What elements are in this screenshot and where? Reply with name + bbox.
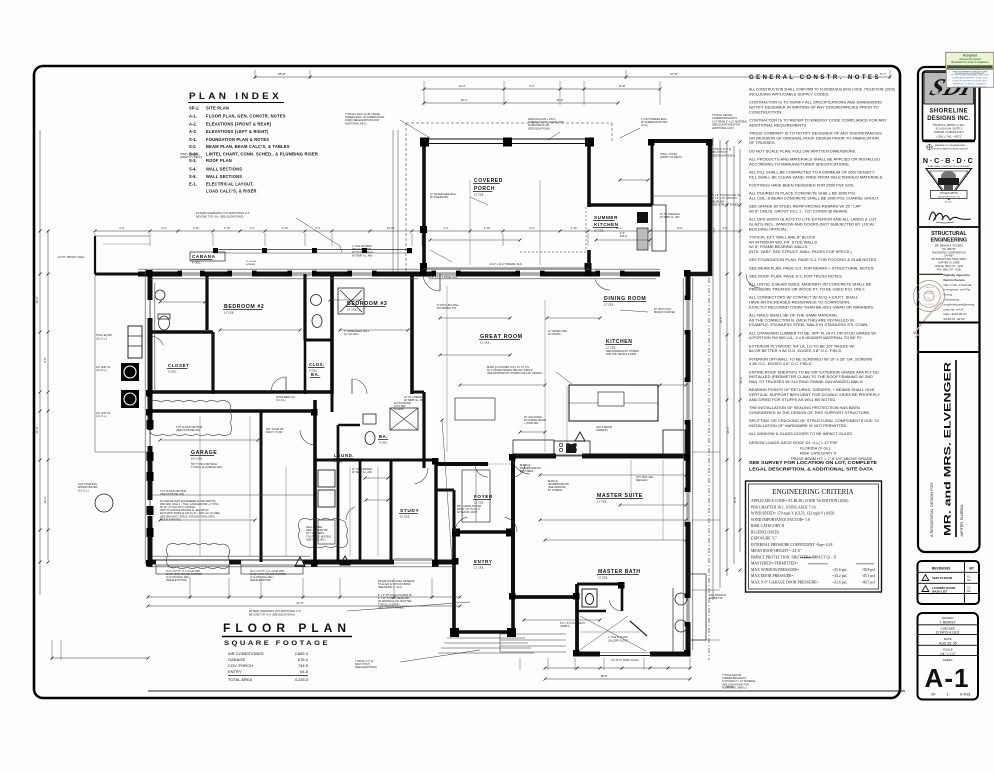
principal signature bbox=[929, 212, 971, 220]
hall wall east bbox=[422, 392, 425, 468]
revision row 2 bbox=[922, 586, 929, 592]
master bath toilet bbox=[582, 589, 597, 607]
svg-text:(SEE ELEVATIONS): (SEE ELEVATIONS) bbox=[166, 579, 187, 582]
pool bath door swing bbox=[150, 336, 163, 345]
svg-text:(SEE ELEVATIONS): (SEE ELEVATIONS) bbox=[250, 579, 271, 582]
svg-text:AND DRIED FOR STUFFS AS WILL B: AND DRIED FOR STUFFS AS WILL BE NOTED. bbox=[749, 397, 836, 402]
svg-text:WALL SECTIONS: WALL SECTIONS bbox=[206, 166, 242, 171]
svg-text:BEYOND TYP. O.H. (SEE ELEVATIO: BEYOND TYP. O.H. (SEE ELEVATIONS) bbox=[249, 613, 295, 616]
svg-text:4 W/ O.C. EDGES 4 8" O.C. FIEL: 4 W/ O.C. EDGES 4 8" O.C. FIELD bbox=[749, 361, 812, 366]
svg-text:AUG 25, 05: AUG 25, 05 bbox=[939, 641, 957, 645]
window jamb blocks east wall bbox=[685, 296, 690, 301]
svg-text:GREAT ROOM: GREAT ROOM bbox=[480, 334, 523, 340]
svg-text:10' CEIL.: 10' CEIL. bbox=[347, 307, 358, 311]
right vertical dimension lines bbox=[712, 137, 714, 600]
kitchen - master suite wall bbox=[513, 454, 688, 459]
master bath toilet room walls bbox=[577, 583, 622, 586]
svg-text:OPT. TRAY CEIL.: OPT. TRAY CEIL. bbox=[636, 476, 654, 479]
master bath door swing bbox=[609, 600, 622, 611]
svg-text:(SEE DRAWINGS BY OTHERS FOR CA: (SEE DRAWINGS BY OTHERS FOR CAB. DESIGN) bbox=[487, 372, 542, 375]
entry porch east wall bbox=[511, 532, 515, 634]
svg-text:( 561 ) 741 - 4572: ( 561 ) 741 - 4572 bbox=[936, 135, 961, 139]
project name vertical text bbox=[929, 361, 953, 537]
svg-text:MASTER SUITE: MASTER SUITE bbox=[597, 493, 643, 499]
svg-text:EXPOSURE "C": EXPOSURE "C" bbox=[751, 537, 778, 541]
svg-text:CERTIFICATION No. 753: CERTIFICATION No. 753 bbox=[937, 195, 961, 198]
kitchen island bbox=[569, 385, 658, 421]
svg-text:10'+ CEIL.: 10'+ CEIL. bbox=[191, 456, 203, 460]
svg-text:SHEET: SHEET bbox=[943, 658, 953, 662]
svg-text:10' CEIL.: 10' CEIL. bbox=[400, 514, 411, 518]
laundry east wall bbox=[337, 425, 340, 562]
svg-text:MEAN ROOF HEIGHT = 24'-6": MEAN ROOF HEIGHT = 24'-6" bbox=[751, 549, 802, 553]
svg-text:SUMMER: SUMMER bbox=[594, 215, 618, 220]
summer kitchen fixtures bbox=[637, 212, 648, 223]
revision delta 2 bbox=[340, 556, 350, 565]
svg-text:COVERED: COVERED bbox=[474, 178, 503, 184]
svg-text:N·C·B·D·C: N·C·B·D·C bbox=[923, 156, 975, 165]
ncbdc name plate bbox=[931, 191, 968, 199]
svg-text:4'-10": 4'-10" bbox=[224, 226, 231, 230]
master vanity bbox=[675, 593, 687, 605]
svg-text:ELEVATIONS (FRONT & REAR): ELEVATIONS (FRONT & REAR) bbox=[206, 121, 272, 126]
svg-text:ALL WINDOW & GLASS DOORS TO BE: ALL WINDOW & GLASS DOORS TO BE IMPACT GL… bbox=[749, 431, 853, 436]
svg-text:CONSIDERED IN THE DESIGN OF TH: CONSIDERED IN THE DESIGN OF THIS SUPPORT… bbox=[749, 410, 870, 415]
svg-text:APPLICABLE CODE= FL BLDG CODE: APPLICABLE CODE= FL BLDG CODE 7th EDITIO… bbox=[751, 499, 849, 503]
svg-text:CABANA: CABANA bbox=[192, 254, 216, 259]
svg-text:SP-1.: SP-1. bbox=[189, 106, 199, 111]
engineer circular seal bbox=[914, 281, 945, 312]
svg-text:MAX WINDOW PRESSURE=: MAX WINDOW PRESSURE= bbox=[751, 568, 799, 572]
svg-text:1'-10": 1'-10" bbox=[193, 226, 200, 230]
divider under signature bbox=[918, 226, 980, 228]
laundry door swing bbox=[346, 507, 355, 520]
great room built-in bbox=[455, 398, 495, 420]
svg-text:ELECTRICAL LAYOUT,: ELECTRICAL LAYOUT, bbox=[206, 182, 254, 187]
porch wall mid column blocks bbox=[420, 226, 427, 233]
svg-text:W/ CROWN: W/ CROWN bbox=[548, 334, 561, 336]
dining bay interior lines bbox=[652, 195, 710, 197]
svg-text:VENT PLENUM: VENT PLENUM bbox=[932, 576, 953, 580]
svg-text:14'-2": 14'-2" bbox=[35, 297, 39, 304]
svg-text:96'-8": 96'-8" bbox=[726, 685, 733, 689]
svg-text:INSTALLATION OF HARDWARE IS NO: INSTALLATION OF HARDWARE IS NOT PERMITTE… bbox=[749, 423, 848, 428]
master closet shelves bbox=[462, 470, 490, 522]
svg-text:ATTIC ABV.: ATTIC ABV. bbox=[394, 405, 406, 408]
svg-text:2,882.4: 2,882.4 bbox=[295, 651, 309, 656]
svg-text:SHORELINE: SHORELINE bbox=[929, 109, 968, 115]
svg-text:W/ TEMP. GL. ABV.: W/ TEMP. GL. ABV. bbox=[404, 399, 425, 402]
adda member mark bbox=[926, 144, 933, 150]
svg-text:A.I.B.D.: A.I.B.D. bbox=[945, 201, 953, 204]
window jamb blocks north wall bbox=[178, 271, 183, 276]
svg-text:A RESIDENTIAL DESIGN FOR:: A RESIDENTIAL DESIGN FOR: bbox=[929, 482, 934, 537]
svg-text:A-2.: A-2. bbox=[189, 121, 197, 126]
bed2 south wall bbox=[150, 390, 332, 394]
svg-text:A-3.: A-3. bbox=[189, 129, 197, 134]
pool bath sink bbox=[155, 290, 165, 300]
svg-text:10' CEIL.: 10' CEIL. bbox=[224, 310, 235, 314]
svg-text:Digitally signed by: Digitally signed by bbox=[944, 273, 971, 277]
svg-text:DO NOT REMOVE FROM JOB SITE: DO NOT REMOVE FROM JOB SITE bbox=[953, 86, 987, 88]
entry column left bbox=[450, 628, 459, 637]
privacy wall wing bbox=[95, 273, 150, 276]
flood vent blocks west wall bbox=[147, 420, 154, 429]
svg-text:(2) 7x16 WALL: (2) 7x16 WALL bbox=[344, 333, 360, 336]
svg-text:2'-10": 2'-10" bbox=[282, 226, 289, 230]
svg-text:CLOSET: CLOSET bbox=[168, 363, 189, 368]
revision row 1 bbox=[922, 575, 929, 581]
master door swing bbox=[512, 459, 530, 474]
divider above project box bbox=[918, 351, 980, 353]
svg-text:MASTER BATH: MASTER BATH bbox=[598, 569, 641, 575]
dining bay north wall bbox=[650, 139, 712, 143]
east equipment yard bbox=[705, 574, 707, 640]
svg-text:ALL COL. & BEAM CONCRETE SHALL: ALL COL. & BEAM CONCRETE SHALL BE 3000 P… bbox=[749, 195, 879, 200]
svg-text:A-1: A-1 bbox=[925, 663, 970, 693]
svg-text:GENERAL CONSTR. NOTES: GENERAL CONSTR. NOTES bbox=[749, 74, 881, 81]
svg-text:OF THE PLANS REVIEWED FOR CODE: OF THE PLANS REVIEWED FOR CODE bbox=[951, 74, 989, 77]
svg-text:SEE ROOF PLAN, PAGE S-3, FOR T: SEE ROOF PLAN, PAGE S-3, FOR TRUSS NOTES… bbox=[749, 273, 843, 278]
svg-text:BLEND @: BLEND @ bbox=[520, 465, 531, 467]
svg-text:54'-2": 54'-2" bbox=[739, 377, 743, 384]
svg-text:12' CEIL.: 12' CEIL. bbox=[474, 500, 485, 504]
sheet border frame bbox=[34, 66, 900, 698]
covered porch east wall bbox=[587, 141, 591, 207]
entry steps bbox=[447, 637, 525, 639]
svg-text:(VERIFY IN FIELD): (VERIFY IN FIELD) bbox=[660, 156, 682, 159]
svg-text:CONSTRUCTION.: CONSTRUCTION. bbox=[749, 109, 782, 114]
svg-text:S-5.: S-5. bbox=[189, 174, 197, 179]
svg-text:BLIND @ COUNTER TOP + 24" ST.: BLIND @ COUNTER TOP + 24" ST. STL. bbox=[487, 367, 530, 369]
svg-text:DRAWERS BELOW: DRAWERS BELOW bbox=[548, 483, 570, 486]
bottom dimension strings bbox=[148, 596, 460, 598]
svg-text:THOMAS WHITE: THOMAS WHITE bbox=[940, 192, 958, 195]
covered porch west wall bbox=[422, 141, 426, 272]
seal strike-through flourish bbox=[914, 302, 942, 334]
covered porch colonnade beam bbox=[420, 138, 594, 140]
svg-text:ELEVATIONS (LEFT & RIGHT): ELEVATIONS (LEFT & RIGHT) bbox=[206, 129, 269, 134]
garage house door swing bbox=[300, 430, 315, 445]
svg-text:10' CEIL.: 10' CEIL. bbox=[598, 575, 609, 579]
svg-text:R3 (ENCLOSED): R3 (ENCLOSED) bbox=[751, 530, 779, 534]
svg-text:GARAGE: GARAGE bbox=[191, 450, 217, 456]
svg-text:ENTRY: ENTRY bbox=[228, 669, 242, 674]
svg-text:8" CONC. BLK WALL: 8" CONC. BLK WALL bbox=[437, 304, 460, 307]
svg-text:BY: BY bbox=[969, 566, 974, 570]
svg-text:PRESSURE TREATED OR WOOD PT. T: PRESSURE TREATED OR WOOD PT. TO BE USED … bbox=[749, 286, 865, 291]
svg-text:42" HT. KNEEWALL: 42" HT. KNEEWALL bbox=[352, 468, 373, 471]
svg-text:37'-8": 37'-8" bbox=[670, 72, 678, 76]
svg-text:12" RAISED KNEE WALL: 12" RAISED KNEE WALL bbox=[430, 193, 457, 196]
shoreline designs card bbox=[923, 71, 976, 142]
svg-text:W/ 8" CMU'S, GROUT FILL 1 - 1/: W/ 8" CMU'S, GROUT FILL 1 - 1/2" COVER @… bbox=[749, 208, 848, 213]
svg-text:4'-0": 4'-0" bbox=[443, 226, 448, 230]
svg-text:COMPLIANCE PER FBC 7th ED. 202: COMPLIANCE PER FBC 7th ED. 2020 bbox=[952, 77, 988, 80]
bed2 bath west wall bbox=[303, 274, 306, 340]
svg-text:A/C PLATFORM: A/C PLATFORM bbox=[394, 402, 411, 405]
svg-text:INCLUDING APPLICABLE SUPPLY CO: INCLUDING APPLICABLE SUPPLY CODES. bbox=[749, 91, 829, 96]
svg-text:POOL EQUIP.: POOL EQUIP. bbox=[96, 333, 113, 337]
svg-text:(SEE ELEVATIONS): (SEE ELEVATIONS) bbox=[528, 127, 550, 130]
svg-text:W/ GARAGE VENT: ENGINEERED FLO: W/ GARAGE VENT: ENGINEERED FLOOD VENTING bbox=[160, 500, 216, 503]
svg-text:3'-2": 3'-2" bbox=[722, 226, 727, 230]
cabana bath east wall bbox=[205, 274, 208, 330]
svg-text:DINING ROOM: DINING ROOM bbox=[604, 296, 646, 302]
svg-text:WALL SECTIONS: WALL SECTIONS bbox=[206, 174, 242, 179]
east exterior wall bbox=[686, 274, 691, 654]
svg-text:Corporation,: Corporation, bbox=[944, 298, 961, 302]
left vertical dimension lines bbox=[39, 130, 41, 595]
svg-text:(SEE NOTE BELOW): (SEE NOTE BELOW) bbox=[176, 429, 200, 432]
hall-bath wall 1 bbox=[359, 460, 362, 562]
kitchen range wall cabinets bbox=[513, 440, 554, 455]
svg-text:A NATIONALLY CERTIFIED BLDG: A NATIONALLY CERTIFIED BLDG DESIGNER bbox=[928, 165, 971, 168]
svg-text:FOYER: FOYER bbox=[474, 494, 493, 499]
cabana walk edge lines bbox=[213, 249, 412, 251]
svg-text:ENTRY: ENTRY bbox=[474, 559, 492, 564]
svg-text:W/ 20" ALUM. RAILING SHUTTER: W/ 20" ALUM. RAILING SHUTTER bbox=[166, 573, 202, 576]
svg-text:W/ TEMP. GL. ABV.: W/ TEMP. GL. ABV. bbox=[660, 216, 680, 219]
svg-text:TYPICAL @ GARAGE CEIL.: TYPICAL @ GARAGE CEIL. bbox=[191, 466, 223, 469]
pool patio boundary bbox=[95, 235, 150, 237]
svg-text:(SEE NOTE ABV.): (SEE NOTE ABV.) bbox=[306, 538, 326, 541]
setback dash-dot line bbox=[708, 278, 710, 660]
svg-text:(V.I.F. DRYWALL ABV.): (V.I.F. DRYWALL ABV.) bbox=[250, 576, 274, 579]
svg-text:A PORTION FM 500 LVL, 2 x 6 HE: A PORTION FM 500 LVL, 2 x 6 HEADER MATER… bbox=[749, 335, 863, 340]
svg-text:BEDROOM #3: BEDROOM #3 bbox=[347, 301, 387, 307]
svg-text:(SEE ELEVATIONS): (SEE ELEVATIONS) bbox=[355, 666, 377, 669]
refrigerator bbox=[663, 430, 685, 454]
engineering criteria box bbox=[746, 481, 882, 592]
bed2 door swing bbox=[271, 377, 286, 392]
svg-text:DESIGNS INC.: DESIGNS INC. bbox=[927, 116, 970, 122]
svg-text:(SEE DETAIL 3 - S+5): (SEE DETAIL 3 - S+5) bbox=[378, 586, 402, 589]
revision cloud garage top bbox=[148, 400, 231, 435]
svg-text:8d OR BETTER 4 W/ O.G. EDGES 4: 8d OR BETTER 4 W/ O.G. EDGES 4 8" O.C. F… bbox=[749, 348, 841, 353]
svg-text:FLOOR PLAN: FLOOR PLAN bbox=[223, 621, 351, 635]
svg-text:ADDITIONAL INFO): ADDITIONAL INFO) bbox=[345, 122, 367, 125]
svg-text:(VERIFY IN FIELD): (VERIFY IN FIELD) bbox=[180, 156, 202, 159]
svg-text:W/ CHEESE GRILZE: W/ CHEESE GRILZE bbox=[524, 420, 547, 422]
svg-text:SEE SURVEY FOR LOCATION ON LOT: SEE SURVEY FOR LOCATION ON LOT, COMPLETE bbox=[749, 460, 877, 465]
north entry door swing bbox=[746, 274, 760, 288]
ncbdc triangle emblem bbox=[926, 169, 972, 200]
svg-text:FLOOR PLAN, GEN. CONSTR. NOTES: FLOOR PLAN, GEN. CONSTR. NOTES bbox=[206, 114, 286, 119]
garage south wall bbox=[148, 560, 315, 565]
entry porch south wall bbox=[454, 630, 513, 634]
svg-text:744.5: 744.5 bbox=[298, 663, 309, 668]
exterior steps south of master hall bbox=[500, 633, 566, 635]
range hood bbox=[566, 444, 576, 453]
svg-text:BA.: BA. bbox=[311, 372, 320, 377]
svg-text:KITCHEN: KITCHEN bbox=[594, 222, 619, 227]
svg-text:LEGAL DESCRIPTION, & ADDITIONA: LEGAL DESCRIPTION, & ADDITIONAL SITE DAT… bbox=[749, 467, 874, 472]
pool equipment pad bbox=[128, 326, 142, 358]
svg-text:W/IN GRG. WALL 1 - 75 EA. GARA: W/IN GRG. WALL 1 - 75 EA. GARAGE DOOR + … bbox=[160, 503, 220, 506]
svg-text:16.0' x 8.0' HT., O.A. ALUM. D: 16.0' x 8.0' HT., O.A. ALUM. DRS. bbox=[166, 570, 201, 573]
svg-text:BA.: BA. bbox=[379, 434, 388, 439]
svg-text:BEAM PLAN, BEAM CALC'S, & TABL: BEAM PLAN, BEAM CALC'S, & TABLES bbox=[206, 144, 290, 149]
misc extension verticals bottom bbox=[519, 658, 521, 670]
svg-text:SCALE: SCALE bbox=[943, 647, 953, 651]
svg-text:FILL SHALL BE CLEAN SAND, FREE: FILL SHALL BE CLEAN SAND, FREE FROM DELE… bbox=[749, 174, 883, 179]
hall south-great room wall bbox=[412, 391, 424, 394]
foyer arch arcs bbox=[475, 464, 488, 477]
svg-text:18'-8": 18'-8" bbox=[600, 674, 607, 678]
svg-text:SQUARE FOOTAGE: SQUARE FOOTAGE bbox=[224, 640, 330, 647]
svg-text:u=engineer, cn=The: u=engineer, cn=The bbox=[944, 288, 971, 292]
svg-text:2'-10": 2'-10" bbox=[484, 226, 491, 230]
svg-text:16'-4": 16'-4" bbox=[719, 317, 723, 324]
summer kitchen overhang dashed bbox=[585, 207, 587, 250]
svg-text:STUDY: STUDY bbox=[400, 508, 419, 514]
svg-text:Accepted: Accepted bbox=[963, 53, 977, 57]
porch floor line bbox=[424, 267, 589, 269]
svg-text:S-1.: S-1. bbox=[189, 137, 197, 142]
garage bay divider wall bbox=[260, 411, 263, 562]
revision delta 1 bbox=[295, 557, 305, 566]
svg-text:MIN. SLOPE 1/8": MIN. SLOPE 1/8" bbox=[266, 429, 284, 431]
master bath gallery shower bbox=[580, 616, 646, 651]
svg-text:42" HT. PRIVACY WALL: 42" HT. PRIVACY WALL bbox=[58, 256, 86, 259]
svg-text:ENGINEERING: ENGINEERING bbox=[931, 238, 967, 244]
svg-text:ADDITIONAL REQUIREMENTS.: ADDITIONAL REQUIREMENTS. bbox=[749, 122, 807, 127]
svg-text:10'-4": 10'-4" bbox=[460, 98, 467, 102]
svg-text:(NTS: VARY, SEE STRUCT. WALL P: (NTS: VARY, SEE STRUCT. WALL PAGES FOR S… bbox=[749, 249, 852, 254]
svg-text:BUILDING OFFICIAL.: BUILDING OFFICIAL. bbox=[749, 226, 788, 231]
svg-text:No. 52735: No. 52735 bbox=[924, 304, 934, 306]
svg-text:Dennis Kucera: Dennis Kucera bbox=[944, 278, 965, 282]
svg-text:AIR CONDITIONED: AIR CONDITIONED bbox=[228, 651, 264, 656]
porch column P3 bbox=[585, 138, 594, 147]
porch column P1 bbox=[420, 138, 429, 147]
svg-text:W/ 4" FRAME OVERALL BELOW 73 R: W/ 4" FRAME OVERALL BELOW 73 REC'D bbox=[487, 369, 533, 372]
bed2 bath south wall bbox=[305, 339, 332, 342]
north wall window openings bbox=[182, 271, 200, 277]
county accepted sticker bbox=[946, 52, 994, 69]
west exterior wall bbox=[148, 272, 153, 564]
svg-text:9' CEIL.: 9' CEIL. bbox=[379, 440, 388, 444]
svg-text:4,233.3: 4,233.3 bbox=[295, 677, 309, 682]
svg-text:(SEE MANUFACT. SPECS. FOR ADDI: (SEE MANUFACT. SPECS. FOR ADDITIONAL INF… bbox=[160, 515, 215, 518]
svg-text:(V.L.O.L.): (V.L.O.L.) bbox=[96, 415, 107, 418]
svg-text:31 DAYS A.I.B.D.: 31 DAYS A.I.B.D. bbox=[936, 631, 961, 635]
revision cloud laundry bbox=[298, 518, 347, 547]
garage east wall bbox=[313, 400, 317, 562]
svg-text:FOOTINGS HAVE BEEN DESIGNED FO: FOOTINGS HAVE BEEN DESIGNED FOR 2500 PSF… bbox=[749, 182, 855, 187]
svg-text:Date: 2021.06.03: Date: 2021.06.03 bbox=[944, 312, 967, 316]
svg-text:EXAMPLE: STAINLESS STEEL NAILS: EXAMPLE: STAINLESS STEEL NAILS IN STAINL… bbox=[749, 322, 868, 327]
svg-text:THIS IS A PERMIT & SEALED COPY: THIS IS A PERMIT & SEALED COPY bbox=[952, 71, 987, 74]
svg-text:DRAWERS BELOW: DRAWERS BELOW bbox=[520, 467, 541, 470]
svg-text:(VERIFY): (VERIFY) bbox=[560, 626, 570, 628]
svg-text:12'-8": 12'-8" bbox=[618, 84, 625, 88]
svg-text:REVISIONS: REVISIONS bbox=[932, 566, 951, 570]
svg-text:W/ 20" ALUM. RAILING SHUTTER: W/ 20" ALUM. RAILING SHUTTER bbox=[250, 573, 286, 576]
svg-text:A-1.: A-1. bbox=[189, 114, 197, 119]
svg-text:42" UPPER CABS.: 42" UPPER CABS. bbox=[548, 330, 568, 333]
svg-text:W/ SCREEN ABV.: W/ SCREEN ABV. bbox=[430, 196, 449, 199]
svg-text:BLIND @: BLIND @ bbox=[548, 481, 559, 483]
svg-text:12' CEIL.: 12' CEIL. bbox=[606, 345, 617, 349]
svg-text:ACCESS: ACCESS bbox=[394, 408, 404, 411]
svg-text:OAK & DECOR: OAK & DECOR bbox=[596, 426, 612, 429]
svg-text:WATER HTR.: WATER HTR. bbox=[709, 597, 723, 600]
svg-text:(V.L.O.L.): (V.L.O.L.) bbox=[96, 369, 107, 372]
garage door leaf 1 bbox=[156, 565, 229, 574]
svg-text:BY OTHERS): BY OTHERS) bbox=[548, 490, 562, 492]
svg-text:DESIGN DRAFTING ASSOCIATION: DESIGN DRAFTING ASSOCIATION bbox=[932, 147, 968, 150]
svg-text:(V.L.O.L.): (V.L.O.L.) bbox=[78, 489, 89, 492]
bed2 bath fixtures bbox=[311, 295, 322, 306]
shoreline card bottom band bbox=[923, 140, 976, 143]
ground line bbox=[148, 690, 905, 692]
svg-text:TOTAL AREA: TOTAL AREA bbox=[228, 677, 252, 682]
bed3 door swing bbox=[352, 379, 367, 394]
electronic review stamp bbox=[946, 70, 993, 88]
svg-text:email=dkucera@erving: email=dkucera@erving bbox=[944, 302, 975, 306]
svg-text:B.B.Q.: B.B.Q. bbox=[620, 235, 628, 238]
master bath west wall bbox=[575, 584, 579, 656]
svg-text:MR. and MRS. ELVENGER: MR. and MRS. ELVENGER bbox=[943, 361, 953, 536]
svg-text:11'-6": 11'-6" bbox=[733, 497, 737, 504]
bed3 east wall bbox=[410, 274, 414, 394]
svg-text:SEE BEAM PLAN, PAGE S-2, FOR B: SEE BEAM PLAN, PAGE S-2, FOR BEAMS + STR… bbox=[749, 265, 874, 270]
extra interior dim lines bbox=[440, 317, 510, 319]
svg-text:16'-0": 16'-0" bbox=[43, 497, 47, 504]
foyer south wall with columns bbox=[452, 530, 513, 533]
svg-text:(5') 76 "O" TEMP. GLASS: (5') 76 "O" TEMP. GLASS bbox=[611, 659, 639, 662]
svg-text:STRUCTURAL: STRUCTURAL bbox=[931, 231, 967, 237]
north exterior wall bbox=[138, 272, 660, 277]
svg-text:WASH LIST: WASH LIST bbox=[932, 589, 948, 593]
sdi logo script bbox=[927, 75, 977, 101]
svg-text:JUPITER, FLORIDA: JUPITER, FLORIDA bbox=[960, 504, 964, 537]
svg-text:41'-0": 41'-0" bbox=[296, 601, 303, 605]
ncbdc emblem figure bbox=[941, 171, 956, 182]
garage north wall bbox=[148, 409, 315, 413]
svg-text:MAX 9'-0" GARAGE DOOR PRESSURE: MAX 9'-0" GARAGE DOOR PRESSURE= bbox=[751, 580, 818, 584]
svg-text:-40.5 psf: -40.5 psf bbox=[862, 580, 876, 584]
master suite west wall bbox=[511, 456, 515, 599]
svg-text:FOUNDATION PLAN & NOTES: FOUNDATION PLAN & NOTES bbox=[206, 137, 269, 142]
svg-text:(SEE NOTE BELOW): (SEE NOTE BELOW) bbox=[160, 493, 184, 496]
svg-text:12'-4": 12'-4" bbox=[458, 84, 465, 88]
svg-text:T. BERKEY: T. BERKEY bbox=[940, 620, 957, 624]
svg-text:GALLERY FLOOR: GALLERY FLOOR bbox=[608, 639, 628, 642]
svg-text:09:28:41 -04'00': 09:28:41 -04'00' bbox=[944, 317, 966, 321]
svg-text:42" HT. KNEEWALL: 42" HT. KNEEWALL bbox=[660, 213, 681, 216]
svg-text:12' CEIL.: 12' CEIL. bbox=[604, 302, 615, 306]
roof overhang dashed outline bbox=[406, 122, 612, 124]
svg-text:PERMIT No. 21-034557 - 06/08/2: PERMIT No. 21-034557 - 06/08/2021 bbox=[953, 83, 988, 85]
upper dimension line tier 3 bbox=[424, 102, 618, 104]
ac condenser unit 2 bbox=[121, 390, 139, 408]
svg-text:DRAWN: DRAWN bbox=[942, 616, 953, 620]
svg-text:S-4.: S-4. bbox=[189, 166, 197, 171]
pool bath south wall bbox=[150, 330, 213, 333]
svg-text:8'-6": 8'-6" bbox=[43, 357, 47, 362]
svg-text:95'-8": 95'-8" bbox=[278, 72, 286, 76]
svg-text:KITCHEN: KITCHEN bbox=[606, 339, 632, 345]
svg-text:971 A/1/A S/A, SUITE 3: 971 A/1/A S/A, SUITE 3 bbox=[936, 128, 963, 131]
svg-text:-38.8 psf: -38.8 psf bbox=[862, 568, 876, 572]
svg-text:12' CEIL.: 12' CEIL. bbox=[480, 340, 491, 344]
bed2 bath shower glass bbox=[340, 290, 362, 312]
svg-text:PORCH: PORCH bbox=[474, 186, 495, 192]
sdi logo gray panel bbox=[924, 73, 974, 105]
